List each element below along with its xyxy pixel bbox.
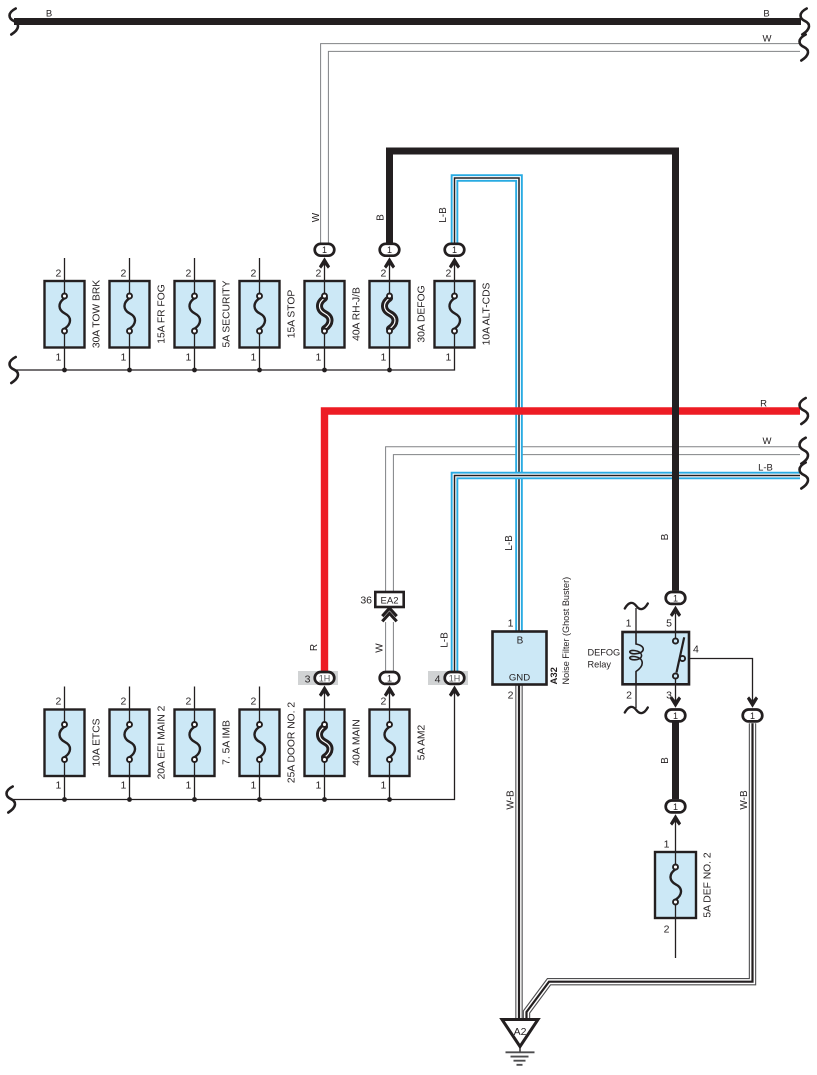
relay pin 3 inner stub	[675, 679, 677, 685]
continuation mark above relay pin 1	[625, 603, 648, 609]
junction row2 column 5	[322, 797, 327, 802]
wire W from EA2 chevron down to connector above 5A AM2 fuse	[385, 622, 394, 671]
svg-text:W: W	[763, 436, 772, 447]
fuse 15A STOP	[240, 281, 280, 348]
wire fuse row2 column 4 to bus	[259, 776, 261, 800]
svg-text:1: 1	[380, 780, 386, 792]
svg-text:1: 1	[315, 352, 321, 364]
svg-text:1: 1	[55, 780, 61, 792]
wire stub above row1 fuse 4	[259, 258, 261, 281]
svg-text:1: 1	[380, 352, 386, 364]
svg-text:B: B	[46, 9, 52, 20]
wire stub above row1 fuse 1	[64, 258, 66, 281]
wire stub connector to row1 fuse 5	[324, 262, 326, 281]
wire connector to 5A DEF NO. 2 fuse	[675, 820, 677, 852]
svg-text:W-B: W-B	[739, 790, 750, 810]
svg-text:A2: A2	[514, 1026, 527, 1038]
break symbol right of B bus	[801, 9, 809, 35]
wire relay pin 1 stub	[635, 608, 637, 632]
wire fuse row1 column 2 to bus	[129, 348, 131, 371]
connector 1 below on B wire	[666, 801, 686, 826]
wire B bus top	[14, 18, 801, 25]
wire fuse bus row2	[11, 691, 455, 800]
continuation mark below relay pin 2	[625, 707, 648, 713]
svg-text:1: 1	[750, 711, 755, 721]
wire relay pin 4 to connector	[685, 659, 753, 703]
svg-text:B: B	[763, 9, 769, 20]
svg-text:4: 4	[435, 673, 441, 685]
svg-text:2: 2	[250, 268, 256, 280]
svg-text:10A ETCS: 10A ETCS	[92, 718, 103, 766]
wire W from W bus down to connector above 40A RH-J/B fuse	[325, 48, 801, 243]
svg-text:20A EFI MAIN 2: 20A EFI MAIN 2	[157, 705, 168, 779]
wire W from W bus row2 down to EA2 connector	[390, 451, 801, 592]
svg-text:W: W	[311, 212, 322, 222]
relay pin 4 contact	[680, 656, 685, 661]
svg-text:A32: A32	[549, 667, 560, 684]
svg-text:1: 1	[185, 352, 191, 364]
wire fuse row2 column 1 to bus	[64, 776, 66, 800]
connector 1 above 30A DEFOG	[380, 244, 400, 269]
relay coil	[630, 632, 643, 684]
svg-text:1: 1	[508, 618, 514, 630]
svg-text:1: 1	[322, 245, 327, 255]
svg-text:2: 2	[55, 268, 61, 280]
svg-text:30A TOW BRK: 30A TOW BRK	[92, 280, 103, 348]
connector 1 on W-B wire right	[743, 696, 763, 721]
svg-text:L-B: L-B	[438, 207, 449, 223]
svg-text:2: 2	[250, 696, 256, 708]
svg-text:2: 2	[120, 696, 126, 708]
wire R from R bus down to connector 3 1H	[325, 411, 801, 671]
junction row1 column 6	[387, 368, 392, 373]
svg-text:1: 1	[452, 245, 457, 255]
svg-text:1: 1	[673, 593, 678, 603]
junction row1 column 1	[62, 368, 67, 373]
connector EA2 pin 36	[360, 592, 403, 621]
svg-text:2: 2	[120, 268, 126, 280]
wire stub above row2 fuse 1	[64, 687, 66, 710]
fuse 40A RH-J/B	[305, 281, 345, 348]
svg-text:1: 1	[250, 780, 256, 792]
wire stub above row2 fuse 3	[194, 687, 196, 710]
svg-text:W: W	[375, 643, 386, 653]
relay pin 3 contact	[673, 673, 678, 678]
fuse 30A DEFOG	[370, 281, 410, 348]
connector 1 below relay pin 3	[666, 696, 686, 721]
fuse 20A EFI MAIN 2	[110, 710, 150, 777]
svg-text:2: 2	[185, 268, 191, 280]
svg-text:Relay: Relay	[588, 660, 612, 670]
fuse 30A TOW BRK	[45, 281, 85, 348]
wire fuse row2 column 2 to bus	[129, 776, 131, 800]
junction row2 column 2	[127, 797, 132, 802]
svg-text:1: 1	[673, 711, 678, 721]
break symbol right of W bus row2	[800, 438, 808, 464]
wire stub connector to 5A AM2 fuse	[389, 691, 391, 710]
junction row1 column 5	[322, 368, 327, 373]
svg-text:30A DEFOG: 30A DEFOG	[417, 285, 428, 342]
wire stub above row1 fuse 3	[194, 258, 196, 281]
svg-text:1: 1	[626, 618, 632, 630]
wire stub connector to row1 fuse 6	[389, 262, 391, 281]
svg-text:B: B	[660, 757, 671, 764]
fuse 25A DOOR NO. 2	[240, 710, 280, 777]
svg-text:36: 36	[360, 595, 372, 607]
svg-text:2: 2	[508, 690, 514, 702]
svg-text:EA2: EA2	[381, 596, 399, 607]
svg-text:B: B	[517, 636, 524, 647]
svg-text:R: R	[309, 644, 320, 651]
svg-text:R: R	[760, 399, 767, 410]
svg-text:7. 5A IMB: 7. 5A IMB	[222, 720, 233, 765]
wire B thick from connector above 30A DEFOG to defog relay pin 5 connector	[390, 151, 676, 591]
svg-text:L-B: L-B	[440, 632, 451, 648]
wire W-B from noise filter GND to ground A2	[515, 685, 522, 1019]
svg-text:25A DOOR NO. 2: 25A DOOR NO. 2	[287, 702, 298, 784]
fuse 15A FR FOG	[110, 281, 150, 348]
wire L-B from connector above 10A ALT-CDS fuse to noise filter pin B	[455, 178, 520, 632]
break symbol left of fuse bus row2	[7, 787, 15, 813]
fuse 5A DEF NO. 2	[655, 852, 696, 918]
svg-text:1: 1	[387, 245, 392, 255]
wire stub above row2 fuse 2	[129, 687, 131, 710]
relay pin 5 inner stub	[675, 632, 677, 638]
wire fuse bus row1	[14, 348, 455, 371]
wire relay pin 5 connector to relay	[675, 613, 677, 632]
svg-text:L-B: L-B	[758, 463, 773, 474]
svg-text:DEFOG: DEFOG	[588, 648, 621, 658]
connector 1 above 40A RH-J/B	[315, 244, 335, 269]
break symbol right of R bus	[800, 398, 808, 424]
ground A2	[502, 1020, 538, 1065]
wire stub above row1 fuse 2	[129, 258, 131, 281]
wire fuse row1 column 1 to bus	[64, 348, 66, 371]
wire fuse row1 column 4 to bus	[259, 348, 261, 371]
relay DEFOG box	[623, 632, 690, 684]
break symbol right of L-B bus row2	[800, 463, 808, 489]
svg-text:2: 2	[445, 268, 451, 280]
junction row1 column 3	[192, 368, 197, 373]
break symbol left of fuse bus row1	[10, 357, 18, 383]
wire B thick from relay pin 3 connector to lower connector	[672, 723, 679, 800]
svg-text:4: 4	[693, 644, 699, 656]
svg-text:1H: 1H	[449, 673, 461, 683]
svg-text:1H: 1H	[319, 673, 331, 683]
svg-text:W: W	[763, 34, 772, 45]
svg-text:W-B: W-B	[506, 790, 517, 810]
break symbol right of W bus	[800, 35, 808, 61]
fuse 10A ALT-CDS	[435, 281, 475, 348]
svg-text:5: 5	[666, 618, 672, 630]
svg-text:1: 1	[55, 352, 61, 364]
junction row1 column 4	[257, 368, 262, 373]
connector 4 1H (L-B wire)	[428, 671, 468, 697]
svg-text:B: B	[660, 533, 671, 540]
svg-text:40A RH-J/B: 40A RH-J/B	[352, 287, 363, 341]
wire fuse row2 column 3 to bus	[194, 776, 196, 800]
connector 3 1H (red wire)	[298, 671, 338, 697]
svg-text:2: 2	[380, 696, 386, 708]
wire fuse row1 column 5 to bus	[324, 348, 326, 371]
break symbol left of B bus	[10, 9, 18, 35]
svg-text:Noise Filter (Ghost Buster): Noise Filter (Ghost Buster)	[561, 577, 571, 685]
svg-text:5A DEF NO. 2: 5A DEF NO. 2	[703, 852, 714, 918]
svg-text:L-B: L-B	[504, 535, 515, 551]
svg-text:1: 1	[387, 673, 392, 683]
relay switch blade	[677, 637, 685, 672]
connector 1 at relay pin 5	[666, 592, 686, 617]
fuse 5A AM2	[370, 710, 410, 777]
svg-text:3: 3	[305, 673, 311, 685]
fuse 40A MAIN	[305, 710, 345, 777]
wire fuse row1 column 6 to bus	[389, 348, 391, 371]
wire relay pin 3 to connector	[675, 684, 677, 702]
fuse 7. 5A IMB	[175, 710, 215, 777]
svg-text:2: 2	[315, 268, 321, 280]
junction row2 column 4	[257, 797, 262, 802]
relay pin 5 contact	[673, 638, 678, 643]
svg-text:2: 2	[380, 268, 386, 280]
svg-text:1: 1	[673, 802, 678, 812]
svg-text:1: 1	[185, 780, 191, 792]
junction row2 column 6	[387, 797, 392, 802]
svg-text:15A FR FOG: 15A FR FOG	[157, 284, 168, 344]
wire below 5A DEF NO. 2 fuse	[675, 918, 677, 958]
wire L-B bus row2 down to connector 4 1H	[455, 476, 801, 672]
fuse 5A SECURITY	[175, 281, 215, 348]
connector 1 above 5A AM2	[380, 672, 400, 697]
wire fuse row2 column 5 to bus	[324, 776, 326, 800]
svg-text:5A SECURITY: 5A SECURITY	[222, 280, 233, 347]
wire fuse row2 column 6 to bus	[389, 776, 391, 800]
svg-text:15A STOP: 15A STOP	[287, 290, 298, 339]
junction row2 column 3	[192, 797, 197, 802]
svg-text:1: 1	[445, 352, 451, 364]
svg-text:2: 2	[664, 924, 670, 936]
svg-text:1: 1	[120, 352, 126, 364]
svg-text:5A AM2: 5A AM2	[417, 724, 428, 760]
noise filter A32 box	[493, 632, 547, 685]
wire relay pin 2 stub	[635, 684, 637, 708]
svg-text:GND: GND	[509, 673, 530, 684]
wire W-B from defog relay pin 4 connector to ground A2	[527, 723, 753, 1018]
junction row2 column 1	[62, 797, 67, 802]
svg-text:10A ALT-CDS: 10A ALT-CDS	[482, 282, 493, 345]
svg-text:1: 1	[664, 839, 670, 851]
svg-text:1: 1	[315, 780, 321, 792]
svg-text:2: 2	[185, 696, 191, 708]
wire stub connector 3 1H to 40A MAIN fuse	[324, 691, 326, 710]
connector 1 above 10A ALT-CDS	[445, 244, 465, 269]
svg-text:2: 2	[55, 696, 61, 708]
fuse 10A ETCS	[45, 710, 85, 777]
wire stub above row2 fuse 4	[259, 687, 261, 710]
wire fuse row1 column 3 to bus	[194, 348, 196, 371]
svg-text:40A MAIN: 40A MAIN	[352, 719, 363, 765]
svg-text:B: B	[376, 214, 387, 221]
svg-text:1: 1	[120, 780, 126, 792]
junction row1 column 2	[127, 368, 132, 373]
wire stub connector to row1 fuse 7	[454, 262, 456, 281]
svg-text:2: 2	[626, 690, 632, 702]
svg-text:1: 1	[250, 352, 256, 364]
